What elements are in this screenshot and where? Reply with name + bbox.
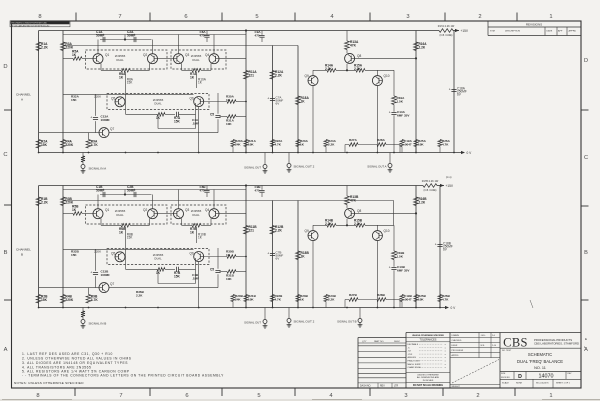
wire collector risers box1 channel B: [97, 195, 99, 209]
svg-text:2.2K: 2.2K: [275, 73, 283, 77]
svg-text:UNLESS OTHERWISE SPECIFIED: UNLESS OTHERWISE SPECIFIED: [412, 335, 444, 337]
svg-text:Q5: Q5: [111, 96, 115, 100]
wire Q7 emitter resistor channel A: [88, 133, 90, 140]
wire ground rail channel B: [39, 307, 446, 309]
series output resistors channel B: [345, 299, 349, 301]
approval diagonal cell: [452, 360, 499, 384]
svg-text:B: B: [21, 253, 23, 257]
svg-text:10K: 10K: [248, 297, 254, 301]
svg-text:REVISIONS: REVISIONS: [526, 23, 542, 27]
svg-text:SIGNAL OUT 2: SIGNAL OUT 2: [294, 165, 315, 169]
wire interstage channel B: [126, 268, 158, 270]
svg-text:+15V: +15V: [446, 184, 454, 188]
title block outline: [357, 338, 359, 388]
svg-text:15K: 15K: [174, 274, 180, 278]
svg-text:(C.B. CASE): (C.B. CASE): [440, 34, 453, 37]
wire Q7 base rail channel A: [39, 132, 99, 134]
svg-text:REV: REV: [380, 385, 385, 387]
bus vertical 272 channel A: [272, 46, 274, 153]
svg-text:2.2K: 2.2K: [325, 67, 332, 71]
svg-text:10K: 10K: [248, 142, 254, 146]
wire driver row channel B: [313, 224, 327, 226]
signal out connector 3 channel B: [359, 308, 361, 319]
svg-text:1: 1: [549, 14, 552, 20]
svg-text:221: 221: [249, 228, 255, 232]
capacitor C1B 50MF: [102, 192, 104, 197]
resistor R19A: [392, 96, 397, 105]
svg-text:SK 2-30-68 S: SK 2-30-68 S: [536, 382, 549, 384]
wire Q10 emitter channel A: [376, 86, 378, 153]
svg-text:Q3: Q3: [185, 53, 189, 57]
transistor Q7B: [99, 283, 109, 293]
svg-text:DUAL: DUAL: [116, 58, 124, 62]
wire Q8 emitter channel A: [355, 57, 416, 59]
svg-text:10K: 10K: [418, 297, 424, 301]
svg-text:14070: 14070: [539, 374, 554, 380]
dual transistor dashed box U2A: [171, 50, 226, 69]
svg-text:D: D: [518, 374, 522, 380]
wire Q7 output channel B: [109, 287, 218, 289]
svg-text:2N3565: 2N3565: [153, 98, 164, 102]
svg-text:Q9: Q9: [305, 229, 309, 233]
svg-text:C: C: [584, 155, 588, 161]
svg-text:DATE: DATE: [547, 30, 553, 33]
svg-text:15K: 15K: [71, 98, 77, 102]
svg-text:2N3565: 2N3565: [115, 209, 126, 213]
svg-text:1K: 1K: [301, 99, 306, 103]
svg-text:1K: 1K: [119, 230, 124, 234]
resistor R13B 47K: [346, 186, 348, 197]
resistor R13A 47K: [346, 31, 348, 42]
svg-text:6MF 35V: 6MF 35V: [397, 113, 410, 117]
wire Q7 emitter resistor channel B: [88, 288, 90, 295]
zone ticks right: [581, 109, 589, 111]
svg-text:2.2K: 2.2K: [325, 222, 332, 226]
transistor Q6A: [194, 97, 204, 107]
wire +15V top rail channel B: [39, 185, 423, 187]
svg-text:4.7K: 4.7K: [91, 143, 99, 147]
svg-text:Q1: Q1: [105, 53, 109, 57]
svg-text:CHAM. EDGE: CHAM. EDGE: [408, 366, 422, 369]
svg-text:10K: 10K: [418, 142, 424, 146]
svg-text:SIGNAL IN B: SIGNAL IN B: [89, 322, 107, 326]
transistor Q9B: [308, 231, 318, 241]
svg-text:221: 221: [249, 73, 255, 77]
approvals table: [450, 337, 500, 339]
capacitor C7B 50MF: [270, 253, 275, 255]
svg-text:6: 6: [184, 14, 187, 20]
svg-text:2. UNLESS OTHERWISE NOTED ALL: 2. UNLESS OTHERWISE NOTED ALL VALUES IN …: [22, 357, 132, 361]
svg-text:DESC: DESC: [394, 341, 400, 343]
svg-text:DECIMALS: DECIMALS: [408, 343, 419, 346]
svg-text:Q2: Q2: [143, 53, 147, 57]
svg-text:CHANNEL: CHANNEL: [16, 248, 31, 252]
svg-text:2.2K: 2.2K: [41, 200, 49, 204]
svg-text:NO. 11: NO. 11: [534, 366, 546, 370]
svg-text:+: +: [389, 266, 391, 270]
wire base input channel B: [63, 212, 73, 214]
svg-text:50MF: 50MF: [127, 188, 135, 192]
wire emitter join box1 channel B: [100, 218, 102, 225]
svg-text:SIGNAL OUT A: SIGNAL OUT A: [367, 165, 386, 169]
resistor R1A 2.2K: [36, 42, 41, 51]
svg-text:7: 7: [118, 14, 121, 20]
svg-text:C5: C5: [210, 113, 214, 117]
signal out connector 2 channel A: [288, 153, 290, 164]
svg-text:2.2K: 2.2K: [136, 293, 143, 297]
wire Q9 emitter channel B: [312, 241, 314, 308]
svg-text:2.2K: 2.2K: [275, 228, 283, 232]
resistor R31B: [227, 270, 236, 274]
resistor R14B 2.2K: [327, 224, 336, 228]
svg-text:4.7K: 4.7K: [91, 298, 99, 302]
svg-text:NO. TEST: NO. TEST: [502, 350, 512, 352]
svg-text:DUAL 'FREQ' BALANCE: DUAL 'FREQ' BALANCE: [517, 359, 563, 364]
svg-text:Q10: Q10: [384, 229, 390, 233]
bus vertical right channel A: [453, 31, 455, 153]
capacitor C18B 250MF: [437, 244, 442, 246]
svg-text:50MF: 50MF: [96, 33, 104, 37]
signal out connector 1 channel B: [264, 308, 266, 320]
svg-text:100MF: 100MF: [101, 273, 111, 277]
svg-text:+: +: [435, 243, 437, 247]
capacitor C1A 50MF: [102, 37, 104, 42]
resistor R16A 2.2K: [414, 42, 419, 51]
svg-text:3: 3: [406, 14, 409, 20]
svg-text:DUAL: DUAL: [116, 213, 124, 217]
capacitor C8B 470: [206, 186, 208, 190]
resistor R30B: [227, 255, 236, 259]
transistor Q9A: [308, 76, 318, 86]
svg-text:15K: 15K: [127, 236, 133, 240]
wire driver row channel A: [313, 69, 327, 71]
wire left supply vertical channel B: [38, 186, 40, 308]
svg-text:47K: 47K: [350, 198, 357, 202]
transistor Q4A: [209, 54, 219, 64]
svg-text:ALL DIMENSIONS ARE: ALL DIMENSIONS ARE: [417, 376, 440, 379]
svg-text:470: 470: [200, 34, 205, 38]
svg-text:CBS: CBS: [503, 335, 528, 349]
svg-text:C: C: [3, 152, 7, 158]
wire second vertical channel A: [62, 31, 64, 153]
svg-text:R27B: R27B: [349, 293, 358, 297]
wire base input channel A: [63, 57, 73, 59]
svg-text:FRACTIONS: FRACTIONS: [408, 360, 421, 363]
resistor R19B: [392, 251, 397, 260]
svg-text:SHEET 1 OF 1: SHEET 1 OF 1: [556, 382, 571, 384]
svg-text:LTR: LTR: [394, 385, 399, 387]
revision table top right: [487, 21, 489, 36]
capacitor C4B: [176, 267, 178, 272]
svg-text:DRAWN: DRAWN: [452, 334, 460, 337]
wire emitter join box1 channel A: [100, 63, 102, 70]
resistor R14A 2.2K: [327, 69, 336, 73]
resistor R4A 220K: [61, 140, 66, 149]
svg-text:6MF 35V: 6MF 35V: [397, 268, 410, 272]
transistor Q1A: [93, 54, 103, 64]
resistor R7A 15K network: [157, 113, 165, 117]
resistor R7A 1K: [192, 69, 201, 73]
wire between dual pairs channel B: [158, 212, 174, 214]
svg-text:8: 8: [38, 14, 41, 20]
zone ticks left: [4, 109, 12, 111]
svg-text:1K: 1K: [72, 208, 77, 212]
wire sub rail channel A: [63, 34, 246, 36]
wire Q6 output to bus channel A: [204, 101, 227, 103]
svg-text:1.5K: 1.5K: [397, 99, 404, 103]
signal out connector 2 channel B: [288, 308, 290, 319]
transistor Q4B: [209, 209, 219, 219]
resistor R18B: [296, 251, 301, 260]
svg-text:W.S.: W.S.: [481, 345, 486, 347]
svg-text:R17A 2.2K 1W: R17A 2.2K 1W: [438, 25, 455, 28]
wire bias rail channel B: [63, 200, 298, 202]
wire bias rail channel A: [63, 45, 298, 47]
capacitor C14B 6MF: [391, 267, 396, 269]
svg-text:SIGNAL IN A: SIGNAL IN A: [89, 167, 108, 171]
svg-text:OF CBS LABS AND MAY NOT BE REP: OF CBS LABS AND MAY NOT BE REPRODUCED: [11, 24, 50, 27]
transistor Q8B: [345, 208, 355, 218]
resistor R3B 220K: [61, 197, 66, 206]
classification stamp top left: [10, 21, 70, 27]
svg-text:R27A: R27A: [349, 138, 358, 142]
bus vertical 416 channel B: [415, 186, 417, 308]
svg-text:+: +: [267, 252, 269, 256]
transistor Q5A: [115, 97, 125, 107]
wire collector risers box2 channel B: [178, 190, 180, 209]
svg-text:1K: 1K: [190, 75, 195, 79]
svg-text:(C.B. CASE): (C.B. CASE): [424, 189, 437, 192]
svg-text:2N3565: 2N3565: [191, 54, 202, 58]
svg-text:2.2K: 2.2K: [328, 142, 335, 146]
svg-text:NOTES: UNLESS OTHERWISE SPECIF: NOTES: UNLESS OTHERWISE SPECIFIED: [14, 381, 84, 385]
wire between dual pairs channel A: [158, 57, 174, 59]
resistor R6A 1K: [121, 69, 130, 73]
resistor R2A 15K: [36, 140, 41, 149]
svg-text:APP: APP: [558, 30, 563, 33]
transistor Q7A: [99, 128, 109, 138]
svg-text:10K: 10K: [226, 122, 232, 126]
capacitor C8A 470: [206, 31, 208, 35]
svg-text:R28A: R28A: [377, 138, 386, 142]
svg-text:1K: 1K: [301, 254, 306, 258]
wire driver tail channel A: [393, 70, 395, 96]
resistor R7B 15K network: [157, 268, 165, 272]
svg-text:SIGNAL OUT B: SIGNAL OUT B: [337, 320, 357, 324]
svg-text:E: E: [585, 337, 587, 341]
wire collector risers box2 channel A: [178, 35, 180, 54]
svg-text:D: D: [584, 58, 588, 64]
svg-text:4.7K: 4.7K: [442, 297, 449, 301]
transistor Q6B: [194, 252, 204, 262]
wire lower link to bus channel B: [220, 271, 228, 273]
svg-text:1. LAST REF DES USED ARE C31,: 1. LAST REF DES USED ARE C31, Q30 + R10: [22, 352, 113, 356]
resistor R15A 2.2K: [356, 69, 365, 73]
svg-text:.0047: .0047: [404, 142, 412, 146]
svg-text:IN INCHES: IN INCHES: [423, 380, 434, 382]
svg-text:DO NOT SCALE DRAWING: DO NOT SCALE DRAWING: [413, 384, 443, 387]
resistor R11A 221: [244, 71, 249, 80]
resistor R30A: [227, 100, 236, 104]
wire Q4 output channel B: [219, 212, 246, 214]
parts list rows: [358, 345, 406, 347]
svg-text:SCALE: SCALE: [502, 381, 509, 384]
svg-text:+: +: [449, 88, 451, 92]
wire emitter join box2 channel A: [181, 63, 183, 70]
wire local loop channel A: [195, 103, 197, 129]
capacitor C4A: [176, 112, 178, 117]
svg-text:3: 3: [404, 393, 407, 399]
svg-text:R17B 2.2K 1W: R17B 2.2K 1W: [422, 180, 439, 183]
svg-text:ANGLES: ANGLES: [408, 356, 417, 359]
dual transistor dashed box U1A: [86, 50, 168, 69]
svg-text:DESCRIPTION: DESCRIPTION: [505, 31, 520, 33]
wire Q6 emitter to ground rail channel B: [198, 262, 200, 308]
resistor R5B 1K: [73, 212, 82, 216]
svg-text:.XXX: .XXX: [408, 354, 413, 356]
svg-text:Q8: Q8: [357, 54, 361, 58]
svg-text:DUAL: DUAL: [192, 58, 200, 62]
wire bias corner channel B: [298, 200, 394, 202]
transistor Q10B: [372, 231, 382, 241]
wire collector risers box1 channel A: [97, 40, 99, 54]
svg-text:Q7: Q7: [110, 127, 114, 131]
transistor Q5B: [115, 252, 125, 262]
resistor R5A 1K: [73, 57, 82, 61]
svg-text:CHECKED: CHECKED: [452, 340, 462, 342]
capacitor C5A bus: [217, 93, 219, 114]
svg-text:4.7K: 4.7K: [275, 142, 282, 146]
svg-text:Q6: Q6: [190, 251, 194, 255]
svg-text:7: 7: [119, 393, 122, 399]
bus vertical 246 channel A: [245, 31, 247, 153]
transistor Q10A: [372, 76, 382, 86]
output divider resistors channel A: [232, 147, 234, 153]
capacitor C2A 50MF: [133, 37, 135, 42]
dual transistor dashed box U1B: [86, 205, 168, 224]
svg-text:15K: 15K: [71, 253, 77, 257]
resistor R7B 1K: [192, 224, 201, 228]
svg-text:4.7K: 4.7K: [275, 297, 282, 301]
svg-text:ENGR: ENGR: [452, 345, 458, 347]
capacitor C7A 50MF: [270, 98, 275, 100]
svg-text:J.M.L.: J.M.L.: [481, 335, 487, 337]
capacitor C9B 470: [261, 186, 263, 190]
signal out connector 3 channel A: [389, 153, 391, 164]
wire +15V top rail channel A: [39, 30, 439, 32]
wire lower link to bus channel A: [220, 116, 228, 118]
transistor Q1B: [93, 209, 103, 219]
svg-text:1K: 1K: [72, 53, 77, 57]
wire sub rail channel B: [63, 189, 246, 191]
wire Q6 emitter to ground rail channel A: [198, 107, 200, 153]
svg-text:+: +: [267, 97, 269, 101]
wire tail current channel B: [125, 227, 127, 269]
svg-text:470: 470: [255, 189, 260, 193]
resistor R3A 220K: [61, 42, 66, 51]
bus vertical 246 channel B: [245, 186, 247, 308]
resistor R11B 221: [244, 226, 249, 235]
transistor Q3B: [174, 209, 184, 219]
svg-text:FSCM NO.: FSCM NO.: [501, 377, 511, 379]
svg-text:Q3: Q3: [185, 208, 189, 212]
svg-text:Q1: Q1: [105, 208, 109, 212]
do not scale row: [406, 381, 450, 383]
resistor R4B 220K: [61, 295, 66, 304]
capacitor C2B 50MF: [133, 192, 135, 197]
svg-text:15K: 15K: [41, 298, 48, 302]
wire ground rail channel A: [39, 152, 462, 154]
output divider resistors channel B: [232, 302, 234, 308]
svg-text:15K: 15K: [174, 119, 180, 123]
svg-text:SIGNAL OUT 2: SIGNAL OUT 2: [294, 320, 315, 324]
svg-text:24K: 24K: [235, 142, 241, 146]
svg-text:DASH NO.: DASH NO.: [360, 384, 371, 387]
svg-text:2.2K: 2.2K: [354, 222, 361, 226]
zone ticks top: [75, 13, 77, 22]
bus vertical right channel B: [439, 186, 441, 308]
svg-text:+: +: [389, 111, 391, 115]
svg-text:1.5K: 1.5K: [397, 254, 404, 258]
wire emitter join box2 channel B: [181, 218, 183, 225]
svg-text:(m.s): (m.s): [446, 176, 452, 179]
svg-text:2: 2: [478, 14, 481, 20]
transistor Q2B: [148, 209, 158, 219]
resistor R16B 2.2K: [414, 197, 419, 206]
wire interstage channel A: [126, 113, 158, 115]
svg-text:+: +: [90, 116, 92, 120]
svg-text:Q4: Q4: [205, 53, 209, 57]
resistor R6B 1K: [121, 224, 130, 228]
svg-text:Q4: Q4: [205, 208, 209, 212]
svg-text:8: 8: [36, 393, 39, 399]
wire tail current channel A: [125, 72, 127, 114]
svg-text:50MF: 50MF: [127, 33, 135, 37]
svg-text:B: B: [584, 250, 588, 256]
dual transistor dashed box U2B: [171, 205, 226, 224]
wire Q8 emitter channel B: [355, 212, 416, 214]
wire left supply vertical channel A: [38, 31, 40, 153]
drawing number row: [500, 371, 581, 373]
bus vertical 272 channel B: [272, 201, 274, 308]
svg-text:SIGNAL OUT: SIGNAL OUT: [244, 166, 261, 170]
svg-text:5: 5: [255, 14, 258, 20]
svg-text:470: 470: [255, 34, 260, 38]
svg-text:Q2: Q2: [143, 208, 147, 212]
svg-text:2: 2: [476, 393, 479, 399]
svg-text:DUAL: DUAL: [154, 257, 162, 261]
svg-text:470: 470: [200, 189, 205, 193]
svg-text:SCHEMATIC: SCHEMATIC: [528, 352, 552, 357]
svg-text:B: B: [4, 250, 8, 256]
svg-text:R28B: R28B: [377, 293, 386, 297]
svg-text:4.7K: 4.7K: [442, 142, 449, 146]
svg-text:C5: C5: [210, 268, 214, 272]
resistor R12B 2.2K: [270, 226, 275, 235]
svg-text:Q9: Q9: [305, 74, 309, 78]
svg-text:2.2K: 2.2K: [41, 45, 49, 49]
bus vertical 416 channel A: [415, 31, 417, 153]
capacitor C18A 250MF: [451, 89, 456, 91]
bus vertical 298 channel B: [297, 201, 299, 308]
resistor R17B 2.2K 1W: [423, 184, 437, 188]
svg-text:220K: 220K: [65, 298, 73, 302]
resistor R1B 2.2K: [36, 197, 41, 206]
svg-text:Q8: Q8: [357, 209, 361, 213]
svg-text:1K: 1K: [119, 75, 124, 79]
svg-text:2.2K: 2.2K: [328, 297, 335, 301]
resistor R2B 15K: [36, 295, 41, 304]
